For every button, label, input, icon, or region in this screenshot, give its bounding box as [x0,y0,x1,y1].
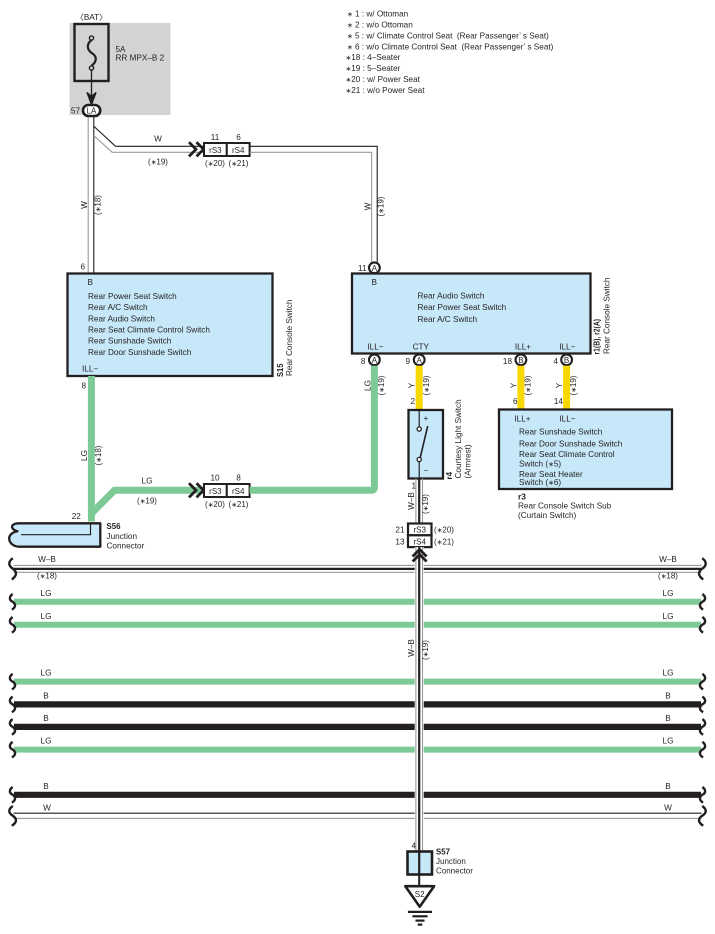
bus 6 right squiggle [700,719,705,735]
bus 7 left squiggle [10,742,15,758]
svg-text:∗18 : 4–Seater: ∗18 : 4–Seater [346,53,401,62]
bus 1 W-B wire (black stripe) [14,568,702,570]
svg-text:(∗19): (∗19) [377,375,386,395]
svg-text:rS4: rS4 [232,146,245,155]
svg-text:ILL−: ILL− [82,364,98,373]
wire S57 to ground triangle [418,875,420,887]
svg-text:Rear Seat Climate Control: Rear Seat Climate Control [519,450,615,459]
white underlay for W-B wire over buses [415,547,424,851]
svg-text:ILL−: ILL− [559,342,575,351]
wire W-B courtesy to rS3 (right outline) [422,479,424,524]
bus 2 right squiggle [700,594,705,610]
svg-text:(∗19): (∗19) [569,375,578,395]
wire Y pin4 to r3 ILL- [563,366,570,410]
wire LG S15 pin8 down to S56 [88,376,95,522]
svg-text:6: 6 [513,397,518,406]
svg-text:Rear Seat Climate Control Swit: Rear Seat Climate Control Switch [88,326,210,335]
bus 4 right squiggle [700,674,705,690]
svg-text:ILL−: ILL− [367,342,383,351]
wire LG from rS4 to r1 pin 8 [250,366,375,491]
svg-text:A: A [417,356,423,365]
ground connector S2 triangle [405,886,434,907]
bus 4 left squiggle [10,674,15,690]
svg-text:(∗19): (∗19) [148,158,168,167]
svg-text:∗ 5 : w/ Climate Control Seat: ∗ 5 : w/ Climate Control Seat (Rear Pass… [347,31,549,40]
connector circle A pin 11 [369,262,380,273]
svg-text:Rear Power Seat Switch: Rear Power Seat Switch [88,292,177,301]
svg-text:W–B: W–B [38,555,56,564]
wire Y CTY pin9 to courtesy switch [416,366,423,410]
svg-text:S56: S56 [107,522,121,531]
svg-text:LG: LG [142,477,153,486]
wire W-B courtesy to rS3 (black stripe) [418,479,420,524]
wire W from rS4 to r1 pin 11 (inner line) [250,152,372,262]
svg-text:10: 10 [210,474,220,483]
connector circle B pin 18 [516,354,527,365]
bus 3 left squiggle [10,617,15,633]
svg-text:B: B [43,714,49,723]
svg-text:(Armrest): (Armrest) [464,444,473,478]
svg-text:−: − [424,466,429,475]
fuse terminal bottom [89,66,93,70]
wire LG branch diagonal to rS3 [91,490,204,513]
svg-text:Rear Console Switch: Rear Console Switch [603,277,612,354]
svg-text:S57: S57 [436,848,450,857]
svg-text:LG: LG [663,589,674,598]
svg-text:8: 8 [81,382,86,391]
wire W from rS4 to r1 pin 11 (outer line) [250,146,378,262]
svg-text:ILL+: ILL+ [514,414,530,423]
svg-text:W: W [154,135,162,144]
bus 9 right squiggle [699,806,706,826]
svg-text:9: 9 [405,357,410,366]
svg-text:rS3: rS3 [209,146,222,155]
fuse terminal top [89,36,93,40]
svg-text:B: B [665,714,671,723]
bus 8 left squiggle [10,787,15,803]
svg-text:A: A [372,264,378,273]
svg-text:(∗21): (∗21) [229,500,249,509]
svg-text:B: B [43,691,49,700]
connector box rS4 (LG) [227,484,250,497]
bus 1 W-B wire (outline bottom) [14,571,702,573]
svg-text:(∗19): (∗19) [421,640,430,660]
svg-text:4: 4 [411,842,416,851]
bus 5 left squiggle [10,697,15,713]
svg-text:B: B [372,278,378,287]
splice chevron up on W-B [413,550,427,562]
svg-text:(∗20): (∗20) [434,526,454,535]
bus 1 left squiggle [9,558,16,579]
wire W from LA to S15 pin 6 (right line) [93,117,95,274]
svg-text:B: B [88,278,94,287]
svg-text:(∗19): (∗19) [422,375,431,395]
connector box rS4 [227,143,250,156]
svg-text:(∗19): (∗19) [377,196,386,216]
svg-text:(∗20): (∗20) [205,500,225,509]
svg-text:B: B [518,356,523,365]
svg-text:rS4: rS4 [413,537,426,546]
svg-text:2: 2 [410,397,415,406]
connector LA oval [83,105,100,116]
svg-text:Courtesy Light Switch: Courtesy Light Switch [454,399,463,479]
bus 3 LG wire [14,622,701,628]
svg-text:(∗21): (∗21) [229,159,249,168]
svg-text:6: 6 [80,263,85,272]
svg-text:RR MPX–B 2: RR MPX–B 2 [116,54,165,63]
connector circle B pin 4 [561,354,572,365]
power source gray block [70,23,171,115]
svg-text:S2: S2 [415,890,425,899]
wire fuse to connector [91,70,93,97]
wire W-B rS4 to S57 (left outline) [415,547,417,851]
svg-text:W: W [43,803,51,812]
svg-text:57: 57 [71,107,81,116]
svg-text:Rear Door Sunshade Switch: Rear Door Sunshade Switch [88,348,192,357]
bus 1 right squiggle [699,558,706,579]
svg-text:Junction: Junction [107,532,138,541]
bus 9 W wire (bottom line) [14,817,702,819]
connector box rS3 (LG) [204,484,227,497]
connector box rS3 (W-B) [408,524,432,536]
svg-text:(∗20): (∗20) [205,159,225,168]
svg-text:Junction: Junction [436,857,466,866]
fuse element [88,40,96,66]
svg-text:LG: LG [80,450,89,461]
svg-text:LG: LG [363,380,372,391]
bus 9 left squiggle [9,806,16,826]
svg-text:W: W [364,202,373,210]
svg-text:∗20 : w/ Power Seat: ∗20 : w/ Power Seat [346,75,421,84]
bus 8 B wire [14,792,701,798]
bus 1 W-B wire (outline top) [14,564,702,566]
component box r3 Rear Console Switch Sub [499,410,672,490]
svg-text:LG: LG [663,737,674,746]
wire W from LA to S15 pin 6 (left line) [87,117,89,274]
svg-text:+: + [424,414,429,423]
svg-text:13: 13 [395,537,405,546]
svg-text:W–B: W–B [407,492,416,510]
svg-text:ILL+: ILL+ [515,342,531,351]
svg-text:Y: Y [555,382,564,388]
svg-text:rS3: rS3 [413,526,426,535]
svg-text:Connector: Connector [436,867,473,876]
svg-text:(Curtain Switch): (Curtain Switch) [518,511,577,520]
bus 7 right squiggle [700,742,705,758]
wire W-B rS4 to S57 (right outline) [422,547,424,851]
switch contact top [417,427,421,431]
svg-text:CTY: CTY [413,342,430,351]
bus 9 W wire (top line) [14,812,702,814]
bus 8 right squiggle [700,787,705,803]
svg-text:r1(B), r2(A): r1(B), r2(A) [593,319,602,355]
switch contact bottom [417,457,421,461]
svg-text:(∗18): (∗18) [94,445,103,465]
connector box rS4 (W-B) [408,535,432,547]
bus 6 B wire [14,724,701,730]
svg-text:4: 4 [553,357,558,366]
wire Y pin18 to r3 ILL+ [517,366,524,410]
svg-text:(∗19): (∗19) [421,494,430,514]
svg-text:8: 8 [236,474,241,483]
switch blade [420,426,427,457]
svg-text:Rear Audio Switch: Rear Audio Switch [88,314,155,323]
bus 5 B wire [14,701,701,707]
fuse F "5A RR MPX-B 2" box [75,24,109,81]
svg-text:∗ 1 : w/ Ottoman: ∗ 1 : w/ Ottoman [347,10,409,19]
svg-text:Connector: Connector [107,542,145,551]
wire branch W to rS3 (lower line) [94,136,204,153]
component box r1/r2 Rear Console Switch [352,274,591,354]
connector box rS3 [204,143,227,156]
svg-text:11: 11 [211,133,220,142]
bus 4 LG wire [14,679,701,685]
svg-text:W: W [80,201,89,209]
svg-text:Switch (∗6): Switch (∗6) [519,478,561,487]
wire W-B rS4 to S57 (black stripe) [418,547,420,851]
svg-text:LG: LG [663,612,674,621]
svg-text:LG: LG [41,669,52,678]
svg-text:S15: S15 [276,363,285,377]
junction connector S57 box [408,852,433,875]
svg-text:(∗18): (∗18) [94,195,103,215]
svg-text:∗21 : w/o Power Seat: ∗21 : w/o Power Seat [346,86,426,95]
svg-text:W–B: W–B [659,555,677,564]
svg-text:22: 22 [72,512,82,521]
svg-text:LG: LG [41,737,52,746]
svg-text:(∗21): (∗21) [434,537,454,546]
connector circle A pin 8 [369,354,380,365]
svg-text:rS4: rS4 [232,487,245,496]
svg-text:Rear Audio Switch: Rear Audio Switch [418,291,485,300]
svg-text:rS3: rS3 [209,487,222,496]
svg-text:B: B [43,782,49,791]
svg-text:〈BAT〉: 〈BAT〉 [76,13,108,22]
svg-text:B: B [564,356,569,365]
svg-text:W–B: W–B [407,639,416,657]
bus 2 left squiggle [10,594,15,610]
svg-text:Rear Sunshade Switch: Rear Sunshade Switch [519,428,603,437]
svg-text:Rear Console Switch: Rear Console Switch [285,299,294,376]
svg-text:(∗19): (∗19) [137,497,157,506]
wire W-B courtesy to rS3 (left outline) [415,479,417,524]
splice chevron >> [189,142,204,156]
svg-text:ILL−: ILL− [559,414,575,423]
svg-text:LG: LG [41,589,52,598]
junction connector S56 inner edge [21,525,91,535]
connector circle A pin 9 [414,354,425,365]
junction connector S56 body [9,523,100,546]
svg-text:18: 18 [503,357,513,366]
bus 6 left squiggle [10,719,15,735]
svg-text:r4: r4 [445,472,454,480]
svg-text:B: B [665,691,671,700]
svg-text:(∗18): (∗18) [658,572,678,581]
component box r4 Courtesy Light Switch [409,410,444,479]
svg-text:(∗19): (∗19) [524,375,533,395]
svg-text:W: W [664,803,672,812]
svg-text:Rear Power Seat Switch: Rear Power Seat Switch [418,303,507,312]
svg-text:Rear Sunshade Switch: Rear Sunshade Switch [88,337,172,346]
bus 5 right squiggle [700,697,705,713]
wire through S57 [418,852,420,875]
svg-text:LG: LG [41,612,52,621]
arrow into connector [87,93,96,105]
svg-text:Rear Console Switch Sub: Rear Console Switch Sub [518,502,612,511]
svg-text:Switch (∗5): Switch (∗5) [519,460,561,469]
bus 2 LG wire [14,599,701,605]
svg-text:21: 21 [395,526,405,535]
svg-text:∗ 6 : w/o Climate Control Seat: ∗ 6 : w/o Climate Control Seat (Rear Pas… [347,42,554,51]
component box S15 Rear Console Switch [68,274,273,377]
svg-text:14: 14 [554,397,564,406]
switch stem top [418,410,420,427]
svg-text:8: 8 [361,357,366,366]
svg-text:Rear Door Sunshade Switch: Rear Door Sunshade Switch [519,439,623,448]
svg-text:6: 6 [236,133,241,142]
svg-text:∗ 2 : w/o Ottoman: ∗ 2 : w/o Ottoman [347,21,413,30]
svg-text:r3: r3 [518,492,526,501]
bus 3 right squiggle [700,617,705,633]
svg-text:∗19 : 5–Seater: ∗19 : 5–Seater [346,64,401,73]
switch stem bottom [418,462,420,479]
svg-text:Y: Y [407,382,416,388]
svg-text:LA: LA [87,107,97,116]
bus 7 LG wire [14,747,701,753]
svg-text:Y: Y [509,382,518,388]
wire branch W to rS3 (upper line) [94,126,204,146]
svg-text:LG: LG [663,669,674,678]
svg-text:(∗18): (∗18) [37,572,57,581]
ground symbol [408,911,432,913]
svg-text:Rear A/C Switch: Rear A/C Switch [88,303,148,312]
svg-text:B: B [665,782,671,791]
splice chevron >> on LG [189,483,204,497]
svg-text:Rear A/C Switch: Rear A/C Switch [418,315,478,324]
svg-text:A: A [372,356,378,365]
svg-text:11: 11 [358,264,367,273]
